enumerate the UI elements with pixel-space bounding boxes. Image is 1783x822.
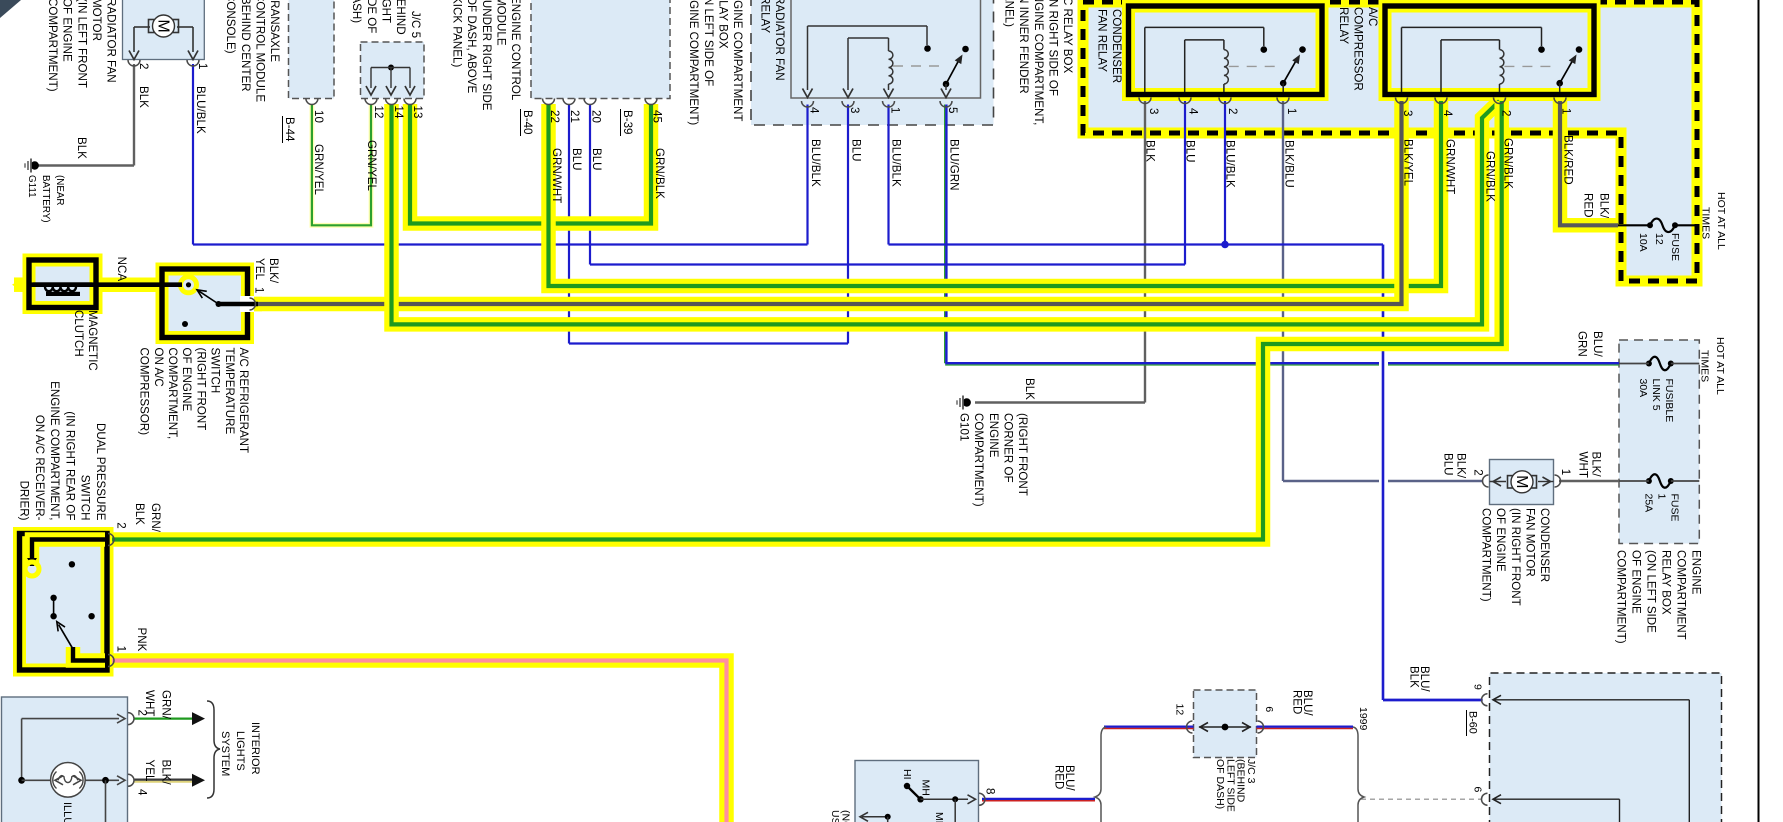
- svg-text:A/C REFRIGERANT: A/C REFRIGERANT: [237, 348, 250, 454]
- svg-text:GRN/BLK: GRN/BLK: [653, 148, 666, 199]
- svg-text:HOT AT ALL: HOT AT ALL: [1715, 192, 1727, 250]
- svg-text:PNK: PNK: [135, 628, 148, 652]
- svg-text:4: 4: [808, 107, 821, 114]
- svg-text:3: 3: [1401, 110, 1414, 116]
- svg-text:22: 22: [548, 110, 561, 123]
- svg-text:SIDE OF: SIDE OF: [365, 0, 378, 33]
- svg-text:ON A/C RECEIVER-: ON A/C RECEIVER-: [33, 415, 46, 521]
- svg-text:KICK PANEL): KICK PANEL): [451, 0, 464, 67]
- svg-text:CONSOLE): CONSOLE): [224, 0, 237, 54]
- svg-text:GRN/YEL: GRN/YEL: [312, 144, 325, 195]
- svg-text:FUSE: FUSE: [1669, 233, 1681, 261]
- svg-text:COMPRESSOR: COMPRESSOR: [1351, 7, 1364, 91]
- svg-text:10A: 10A: [1637, 233, 1649, 252]
- svg-text:FAN RELAY: FAN RELAY: [1095, 9, 1108, 72]
- svg-text:(ON LEFT SIDE: (ON LEFT SIDE: [1644, 550, 1657, 633]
- svg-text:HI: HI: [901, 769, 913, 780]
- svg-text:BLK: BLK: [1144, 140, 1157, 162]
- svg-text:BLU: BLU: [570, 148, 583, 171]
- svg-text:BLK: BLK: [133, 503, 146, 525]
- svg-text:SYSTEM: SYSTEM: [219, 731, 231, 776]
- svg-text:PANEL): PANEL): [1003, 0, 1016, 27]
- svg-text:25A: 25A: [1643, 494, 1655, 513]
- svg-text:12: 12: [1653, 233, 1665, 245]
- svg-text:RED: RED: [1291, 690, 1303, 714]
- svg-text:OF DASH, ABOVE: OF DASH, ABOVE: [465, 0, 478, 94]
- svg-text:B-60: B-60: [1467, 711, 1479, 734]
- svg-text:1: 1: [1560, 108, 1573, 114]
- svg-text:RIGHT: RIGHT: [379, 0, 392, 23]
- svg-text:(ON LEFT SIDE OF: (ON LEFT SIDE OF: [702, 0, 715, 86]
- svg-text:4: 4: [1441, 110, 1454, 117]
- svg-text:TEMPERATURE: TEMPERATURE: [223, 348, 236, 435]
- svg-text:BLK: BLK: [1023, 378, 1036, 400]
- svg-text:(RIGHT FRONT: (RIGHT FRONT: [194, 348, 207, 431]
- svg-text:13: 13: [411, 106, 424, 119]
- svg-text:BLU: BLU: [850, 139, 863, 162]
- svg-text:ML: ML: [933, 812, 945, 822]
- svg-text:5: 5: [946, 107, 959, 113]
- svg-text:COMPARTMENT,: COMPARTMENT,: [166, 348, 179, 440]
- svg-text:CONDENSER: CONDENSER: [1538, 508, 1551, 582]
- svg-text:BLK: BLK: [137, 86, 150, 108]
- svg-text:BLK/: BLK/: [1455, 453, 1468, 479]
- svg-text:10: 10: [312, 110, 325, 123]
- svg-text:ENGINE COMPARTMENT: ENGINE COMPARTMENT: [731, 0, 744, 121]
- svg-text:B-44: B-44: [283, 117, 296, 142]
- svg-text:20: 20: [590, 110, 603, 123]
- svg-text:COMPRESSOR): COMPRESSOR): [138, 348, 151, 436]
- svg-text:NCA: NCA: [115, 257, 128, 282]
- svg-text:1: 1: [1656, 494, 1668, 500]
- svg-text:2: 2: [1226, 108, 1239, 114]
- svg-text:BLK/: BLK/: [267, 258, 280, 284]
- svg-text:OF ENGINE: OF ENGINE: [61, 0, 74, 62]
- svg-text:ILLUMINATION: ILLUMINATION: [61, 802, 73, 822]
- svg-text:USED): USED): [829, 810, 841, 822]
- svg-text:LINK 5: LINK 5: [1650, 379, 1662, 411]
- svg-text:GRN/WHT: GRN/WHT: [1444, 139, 1457, 194]
- svg-text:BLU: BLU: [590, 148, 603, 171]
- svg-text:RADIATOR FAN: RADIATOR FAN: [105, 0, 118, 83]
- svg-text:DASH): DASH): [350, 0, 363, 23]
- svg-text:CONDENSER: CONDENSER: [1110, 9, 1123, 83]
- svg-text:1: 1: [253, 287, 266, 293]
- svg-text:GRN/: GRN/: [160, 690, 173, 720]
- svg-text:BLK: BLK: [75, 137, 88, 159]
- svg-text:RELAY: RELAY: [758, 0, 771, 33]
- svg-text:YEL: YEL: [143, 760, 156, 782]
- svg-text:COMPARTMENT): COMPARTMENT): [1480, 508, 1493, 602]
- svg-text:BLU: BLU: [1442, 453, 1455, 476]
- svg-text:ON INNER FENDER: ON INNER FENDER: [1017, 0, 1030, 94]
- svg-text:CLUTCH: CLUTCH: [72, 310, 84, 357]
- svg-text:BLK/: BLK/: [1598, 193, 1611, 219]
- svg-text:12: 12: [1174, 704, 1186, 716]
- svg-text:A/C RELAY BOX: A/C RELAY BOX: [1061, 0, 1074, 73]
- svg-text:8: 8: [984, 788, 997, 794]
- svg-text:1999: 1999: [1357, 707, 1369, 731]
- svg-text:INTERIOR: INTERIOR: [249, 722, 261, 775]
- svg-text:COMPARTMENT): COMPARTMENT): [46, 0, 59, 92]
- svg-text:GRN/BLK: GRN/BLK: [1502, 138, 1515, 189]
- svg-text:SWITCH: SWITCH: [79, 475, 92, 521]
- svg-text:GRN/: GRN/: [149, 503, 162, 533]
- svg-text:GRN/BLK: GRN/BLK: [1484, 151, 1497, 202]
- svg-text:(NEAR: (NEAR: [54, 175, 65, 205]
- svg-text:BLK/RED: BLK/RED: [1562, 135, 1575, 185]
- svg-text:RELAY: RELAY: [1337, 7, 1350, 44]
- svg-text:21: 21: [568, 110, 581, 123]
- svg-text:ENGINE COMPARTMENT,: ENGINE COMPARTMENT,: [48, 381, 61, 520]
- svg-text:(BEHIND: (BEHIND: [394, 0, 407, 35]
- svg-text:OF ENGINE: OF ENGINE: [1629, 550, 1642, 614]
- svg-text:2: 2: [115, 522, 128, 528]
- svg-text:WHT: WHT: [143, 690, 156, 716]
- svg-text:BLK: BLK: [1408, 666, 1420, 688]
- svg-text:RED: RED: [1053, 765, 1065, 789]
- svg-text:4: 4: [136, 789, 149, 796]
- svg-text:RELAY BOX: RELAY BOX: [1659, 550, 1672, 615]
- svg-text:ENGINE CONTROL: ENGINE CONTROL: [509, 0, 522, 101]
- svg-text:6: 6: [1472, 787, 1484, 793]
- svg-text:MH: MH: [920, 780, 932, 796]
- svg-text:COMPARTMENT): COMPARTMENT): [972, 413, 985, 507]
- svg-text:BLK/YEL: BLK/YEL: [1402, 139, 1415, 187]
- svg-text:RELAY BOX: RELAY BOX: [716, 0, 729, 49]
- svg-text:M: M: [154, 19, 171, 32]
- svg-text:CONTROL MODULE: CONTROL MODULE: [253, 0, 266, 102]
- svg-text:DUAL PRESSURE: DUAL PRESSURE: [94, 423, 107, 521]
- svg-text:BLU/BLK: BLU/BLK: [194, 86, 207, 134]
- svg-text:MOTOR: MOTOR: [90, 0, 103, 41]
- svg-text:(BEHIND CENTER: (BEHIND CENTER: [239, 0, 252, 92]
- svg-text:3: 3: [1147, 108, 1160, 114]
- svg-text:2: 2: [1500, 110, 1513, 116]
- svg-text:ENGINE: ENGINE: [987, 413, 1000, 458]
- svg-text:BLU/GRN: BLU/GRN: [948, 139, 961, 191]
- svg-text:CORNER OF: CORNER OF: [1001, 413, 1014, 483]
- svg-text:(IN LEFT FRONT: (IN LEFT FRONT: [75, 0, 88, 88]
- svg-text:COMPARTMENT: COMPARTMENT: [1674, 550, 1687, 640]
- svg-text:12: 12: [372, 106, 385, 119]
- svg-text:45: 45: [651, 110, 664, 123]
- svg-text:9: 9: [1472, 684, 1484, 690]
- svg-text:A/C: A/C: [1366, 7, 1379, 26]
- svg-text:BLU/BLK: BLU/BLK: [1224, 140, 1237, 188]
- svg-text:OF ENGINE: OF ENGINE: [1494, 508, 1507, 572]
- svg-text:ENGINE: ENGINE: [1690, 550, 1703, 595]
- svg-text:14: 14: [392, 106, 405, 119]
- svg-text:MAGNETIC: MAGNETIC: [86, 310, 98, 371]
- svg-text:GRN/WHT: GRN/WHT: [550, 148, 563, 203]
- svg-text:1: 1: [115, 646, 128, 652]
- svg-text:HOT AT ALL: HOT AT ALL: [1714, 337, 1726, 395]
- svg-text:(ON RIGHT SIDE OF: (ON RIGHT SIDE OF: [1046, 0, 1059, 96]
- svg-text:GRN: GRN: [1576, 331, 1589, 357]
- svg-text:SWITCH: SWITCH: [209, 348, 222, 394]
- svg-text:1: 1: [1285, 108, 1298, 114]
- svg-text:WHT: WHT: [1577, 452, 1590, 478]
- svg-text:GRN/YEL: GRN/YEL: [365, 140, 378, 191]
- svg-text:J/C 5: J/C 5: [409, 11, 422, 38]
- svg-text:BLK/BLU: BLK/BLU: [1283, 140, 1296, 188]
- svg-text:6: 6: [1263, 706, 1275, 712]
- svg-text:BLU: BLU: [1184, 140, 1197, 163]
- svg-text:(RIGHT FRONT: (RIGHT FRONT: [1016, 413, 1029, 496]
- svg-text:BLU/BLK: BLU/BLK: [809, 139, 822, 187]
- svg-text:BLU/: BLU/: [1591, 331, 1604, 358]
- svg-text:3: 3: [848, 107, 861, 113]
- svg-text:TIMES: TIMES: [1700, 207, 1712, 239]
- svg-text:FUSE: FUSE: [1669, 494, 1681, 522]
- svg-text:B-39: B-39: [621, 110, 634, 135]
- svg-text:2: 2: [1472, 469, 1485, 475]
- svg-text:ENGINE COMPARTMENT,: ENGINE COMPARTMENT,: [1032, 0, 1045, 125]
- svg-text:ENGINE COMPARTMENT): ENGINE COMPARTMENT): [687, 0, 700, 125]
- svg-text:M: M: [1513, 475, 1530, 488]
- svg-text:(IN RIGHT REAR OF: (IN RIGHT REAR OF: [63, 411, 76, 520]
- svg-text:BATTERY): BATTERY): [40, 175, 51, 223]
- svg-text:BLK/: BLK/: [160, 760, 173, 786]
- svg-text:TIMES: TIMES: [1699, 350, 1711, 382]
- svg-text:B-40: B-40: [521, 110, 534, 135]
- svg-text:FUSIBLE: FUSIBLE: [1663, 379, 1675, 423]
- svg-text:BLK/: BLK/: [1590, 452, 1603, 478]
- svg-text:LIGHTS: LIGHTS: [234, 731, 246, 771]
- svg-text:G101: G101: [958, 413, 971, 441]
- svg-text:DRIER): DRIER): [18, 481, 31, 521]
- svg-text:(UNDER RIGHT SIDE: (UNDER RIGHT SIDE: [480, 0, 493, 111]
- svg-text:(IN RIGHT FRONT: (IN RIGHT FRONT: [1509, 508, 1522, 606]
- svg-text:RED: RED: [1582, 193, 1595, 217]
- svg-text:1: 1: [1559, 469, 1572, 475]
- svg-text:BLU/BLK: BLU/BLK: [890, 139, 903, 187]
- svg-text:OF DASH): OF DASH): [1214, 759, 1226, 809]
- svg-text:1: 1: [889, 107, 902, 113]
- svg-text:YEL: YEL: [253, 258, 266, 280]
- svg-text:G111: G111: [26, 175, 37, 198]
- svg-text:ON A/C: ON A/C: [152, 348, 165, 387]
- svg-text:30A: 30A: [1637, 379, 1649, 398]
- svg-text:4: 4: [1187, 108, 1200, 115]
- svg-text:RADIATOR FAN: RADIATOR FAN: [773, 0, 786, 81]
- svg-text:MODULE: MODULE: [494, 0, 507, 46]
- svg-text:FAN MOTOR: FAN MOTOR: [1523, 508, 1536, 577]
- svg-text:COMPARTMENT): COMPARTMENT): [1614, 550, 1627, 644]
- svg-text:TRANSAXLE: TRANSAXLE: [268, 0, 281, 62]
- svg-text:OF ENGINE: OF ENGINE: [180, 348, 193, 412]
